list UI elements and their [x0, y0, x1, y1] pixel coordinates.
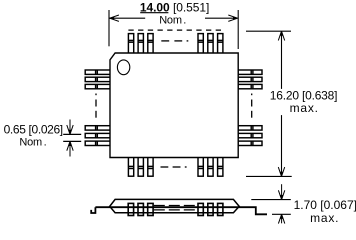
svg-text:Nom.: Nom.: [159, 14, 186, 26]
arrow up of 1.70: [278, 214, 284, 223]
top lead group top-left (3 leads): [128, 34, 153, 54]
dimension 1.70 extension line bottom: [272, 213, 291, 215]
dimension 1.70 extension line top: [251, 199, 290, 201]
bottom lead group bottom-right (3 leads): [198, 157, 223, 176]
omitted-leads ellipsis dash-dot (left): [95, 94, 97, 118]
svg-text:Nom.: Nom.: [19, 137, 46, 149]
right lead group lower (3 leads): [238, 126, 262, 146]
dimension 16.20 extension line top: [246, 30, 291, 32]
arrowhead left of 14.00: [110, 15, 119, 21]
arrowhead up of 16.20: [278, 31, 284, 40]
right lead group upper (3 leads): [238, 70, 262, 89]
package body outline with chamfered pin-1 corner: [110, 53, 238, 158]
arrowhead down of 16.20: [278, 167, 284, 176]
arrow down of 1.70: [278, 184, 284, 199]
svg-text:0.65 [0.026]: 0.65 [0.026]: [4, 122, 63, 136]
arrow up of 0.65: [67, 141, 73, 156]
top lead group top-right (3 leads): [198, 34, 223, 54]
dimension 0.65 extension line lower: [63, 140, 81, 142]
dimension 16.20 dimension line: [281, 32, 283, 89]
svg-text:max.: max.: [310, 211, 339, 225]
side view body outline (hexagon): [110, 199, 240, 212]
dimension 14.00 extension line right: [237, 10, 239, 49]
underline of 14.00: [140, 12, 168, 14]
pin-1 index circle: [117, 60, 129, 75]
omitted-leads ellipsis dash-dot (right): [251, 94, 253, 118]
bottom lead group bottom-left (3 leads): [128, 157, 153, 176]
left lead group upper (3 leads): [85, 70, 110, 89]
arrow down of 0.65: [67, 120, 73, 135]
side view gull-wing lead line (left foot, through-body line, right foot): [91, 207, 267, 214]
omitted-leads ellipsis dash-dot (bottom): [161, 166, 187, 168]
arrowhead right of 14.00: [228, 15, 237, 21]
side view omitted-leads dashes upper: [154, 205, 197, 207]
dimension 16.20 extension line bottom: [246, 175, 292, 177]
dimension 14.00 dimension line: [110, 17, 146, 19]
left lead group lower (3 leads): [85, 126, 110, 146]
dimension 0.65 extension line upper: [63, 133, 81, 135]
dashed lead-tip envelope line (top): [128, 29, 221, 31]
side view lead stubs (bottom row cross-sections): [128, 203, 223, 215]
omitted-leads ellipsis dash-dot (top): [161, 40, 188, 42]
svg-text:max.: max.: [290, 101, 319, 115]
dimension 14.00 extension line left: [108, 10, 110, 46]
side view omitted-leads dashes lower: [154, 209, 197, 211]
